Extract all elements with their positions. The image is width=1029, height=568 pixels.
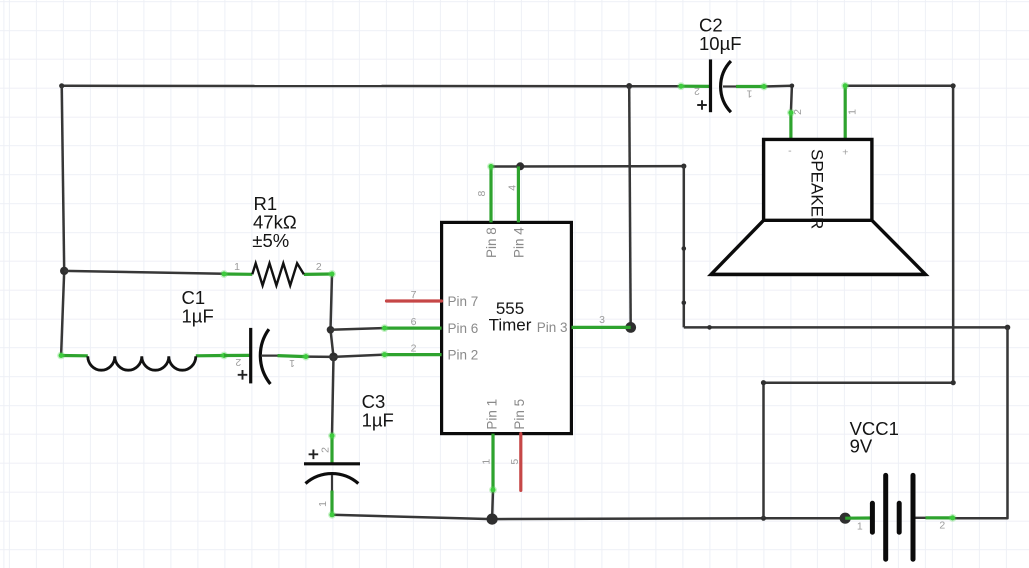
pin number SP-2	[792, 109, 804, 115]
pin name Pin 1	[484, 399, 499, 430]
wire mid horizontal net	[684, 326, 1008, 329]
svg-text:1: 1	[846, 109, 858, 115]
svg-text:9V: 9V	[850, 436, 873, 457]
wire speaker pin1 to battery minus net	[764, 86, 954, 518]
svg-text:Pin 1: Pin 1	[484, 399, 499, 430]
junction corner bottom-left of battery riser	[761, 516, 766, 521]
svg-text:2: 2	[316, 261, 322, 273]
junction node B	[327, 326, 335, 334]
pin 3 stub	[572, 326, 631, 329]
speaker plus mark	[842, 147, 848, 159]
pin name Pin 6	[448, 321, 479, 336]
label U1 555 Timer	[489, 299, 532, 335]
pin 4 stub	[517, 166, 520, 222]
speaker minus mark	[788, 145, 792, 157]
svg-text:Pin 4: Pin 4	[511, 227, 526, 258]
svg-text:7: 7	[411, 289, 417, 301]
pin number 7	[411, 289, 417, 301]
junction joint mid riser lower	[682, 301, 687, 306]
pin 1 stub	[489, 434, 497, 494]
svg-text:Pin 5: Pin 5	[512, 399, 527, 430]
op-amp U1 555 timer box	[442, 222, 572, 433]
wire top horizontal net	[62, 85, 681, 88]
junction node battery pin1	[840, 513, 851, 524]
wire 555 pin1 drop	[491, 490, 494, 519]
pin 2 stub	[381, 351, 442, 359]
pin number 2	[411, 343, 417, 355]
svg-text:1: 1	[857, 521, 863, 533]
wire bottom net	[332, 515, 845, 519]
svg-text:1µF: 1µF	[362, 410, 394, 431]
wire C2 to speaker pin2	[764, 84, 794, 113]
svg-text:1: 1	[234, 261, 240, 273]
junction corner left mid	[761, 380, 766, 385]
pin number 4	[506, 185, 518, 191]
svg-text:1: 1	[746, 87, 752, 99]
label C3 value	[362, 391, 394, 431]
pin number VCC1-1	[857, 521, 863, 533]
junction node A left	[60, 267, 68, 275]
pin name Pin 2	[448, 347, 479, 362]
pin number R1-2	[316, 261, 322, 273]
pin name Pin 4	[511, 227, 526, 258]
svg-text:4: 4	[506, 185, 518, 191]
wire pin3 riser vertical	[629, 86, 631, 327]
pin number 6	[411, 316, 417, 328]
svg-text:-: -	[788, 145, 792, 157]
pin name Pin 3	[537, 320, 568, 335]
label VCC1 value	[850, 418, 899, 457]
svg-text:+: +	[842, 147, 848, 159]
pin name Pin 5	[512, 399, 527, 430]
svg-text:1: 1	[317, 501, 329, 507]
junction node pin1-bottom	[487, 514, 498, 525]
speaker LS1	[711, 82, 926, 275]
junction joint mid horizontal	[707, 325, 712, 330]
capacitor C2	[677, 59, 768, 112]
battery VCC1	[845, 475, 956, 559]
pin number 8	[476, 191, 488, 197]
label C2 value	[699, 15, 742, 55]
junction top-left corner	[59, 83, 64, 88]
pin number C2-1	[746, 87, 752, 99]
pin name Pin 8	[484, 227, 499, 258]
wire battery pin2 to right riser	[953, 327, 1008, 518]
pin 7 stub (unconnected, red)	[387, 299, 442, 302]
svg-text:Pin 3: Pin 3	[537, 320, 568, 335]
junction node pin3	[625, 322, 636, 333]
pin number C3-2	[320, 447, 332, 453]
svg-text:8: 8	[476, 191, 488, 197]
svg-text:Pin 7: Pin 7	[448, 294, 479, 309]
wire node C to pin2	[334, 355, 385, 357]
label C1 value	[182, 287, 214, 327]
pin number SP-1	[846, 109, 858, 115]
label R1 value	[252, 193, 297, 251]
pin number 3	[599, 314, 605, 326]
svg-text:±5%: ±5%	[252, 230, 289, 251]
svg-text:2: 2	[939, 520, 945, 532]
pin number 1	[481, 459, 493, 465]
svg-text:6: 6	[411, 316, 417, 328]
junction node C	[329, 353, 338, 362]
pin 5 stub (unconnected, red)	[519, 434, 522, 491]
inductor L1	[57, 352, 228, 371]
capacitor C3	[304, 432, 360, 519]
svg-text:SPEAKER: SPEAKER	[807, 149, 826, 229]
svg-text:Timer: Timer	[489, 316, 532, 335]
wire node B to pin6	[331, 328, 385, 330]
capacitor C1	[224, 328, 310, 384]
wire node C down to C3	[332, 357, 334, 436]
svg-text:2: 2	[792, 109, 804, 115]
pin number R1-1	[234, 261, 240, 273]
junction corner right mid	[951, 380, 956, 385]
pin number C3-1	[317, 501, 329, 507]
pin number C1-1	[289, 357, 295, 369]
svg-text:5: 5	[509, 459, 521, 465]
svg-text:2: 2	[320, 447, 332, 453]
junction corner top of mid riser	[681, 164, 686, 169]
junction corner speaker right top	[951, 83, 956, 88]
junction node pin4 top	[516, 162, 524, 170]
svg-text:1: 1	[481, 459, 493, 465]
pin number VCC1-2	[939, 520, 945, 532]
svg-text:1µF: 1µF	[182, 306, 214, 327]
pin number C1-2	[235, 356, 241, 368]
pin number C2-2	[694, 85, 700, 97]
svg-text:Pin 6: Pin 6	[448, 321, 479, 336]
pin number 5	[509, 459, 521, 465]
pin 8 stub	[487, 163, 495, 223]
svg-text:2: 2	[235, 356, 241, 368]
pin 6 stub	[381, 324, 442, 332]
svg-text:Pin 2: Pin 2	[448, 347, 479, 362]
svg-text:2: 2	[411, 343, 417, 355]
svg-text:2: 2	[694, 85, 700, 97]
svg-text:1: 1	[289, 357, 295, 369]
label SPEAKER	[807, 149, 826, 229]
wire C1 pin1 to node C	[306, 355, 334, 358]
junction joint mid riser upper	[682, 246, 687, 251]
pin name Pin 7	[448, 294, 479, 309]
svg-text:3: 3	[599, 314, 605, 326]
wire to R1 pin1	[64, 271, 224, 274]
wire pin8 pin4 top net	[491, 165, 684, 168]
wire R1 pin2 down	[331, 274, 334, 357]
junction corner right net top	[1005, 325, 1011, 331]
svg-text:10µF: 10µF	[699, 33, 742, 54]
junction node top wire to pin3 riser	[626, 83, 632, 89]
svg-text:Pin 8: Pin 8	[484, 227, 499, 258]
resistor R1	[220, 263, 336, 285]
wire left vertical lower	[61, 271, 64, 356]
wire mid riser vertical	[683, 166, 686, 327]
wire left vertical upper	[62, 86, 64, 271]
